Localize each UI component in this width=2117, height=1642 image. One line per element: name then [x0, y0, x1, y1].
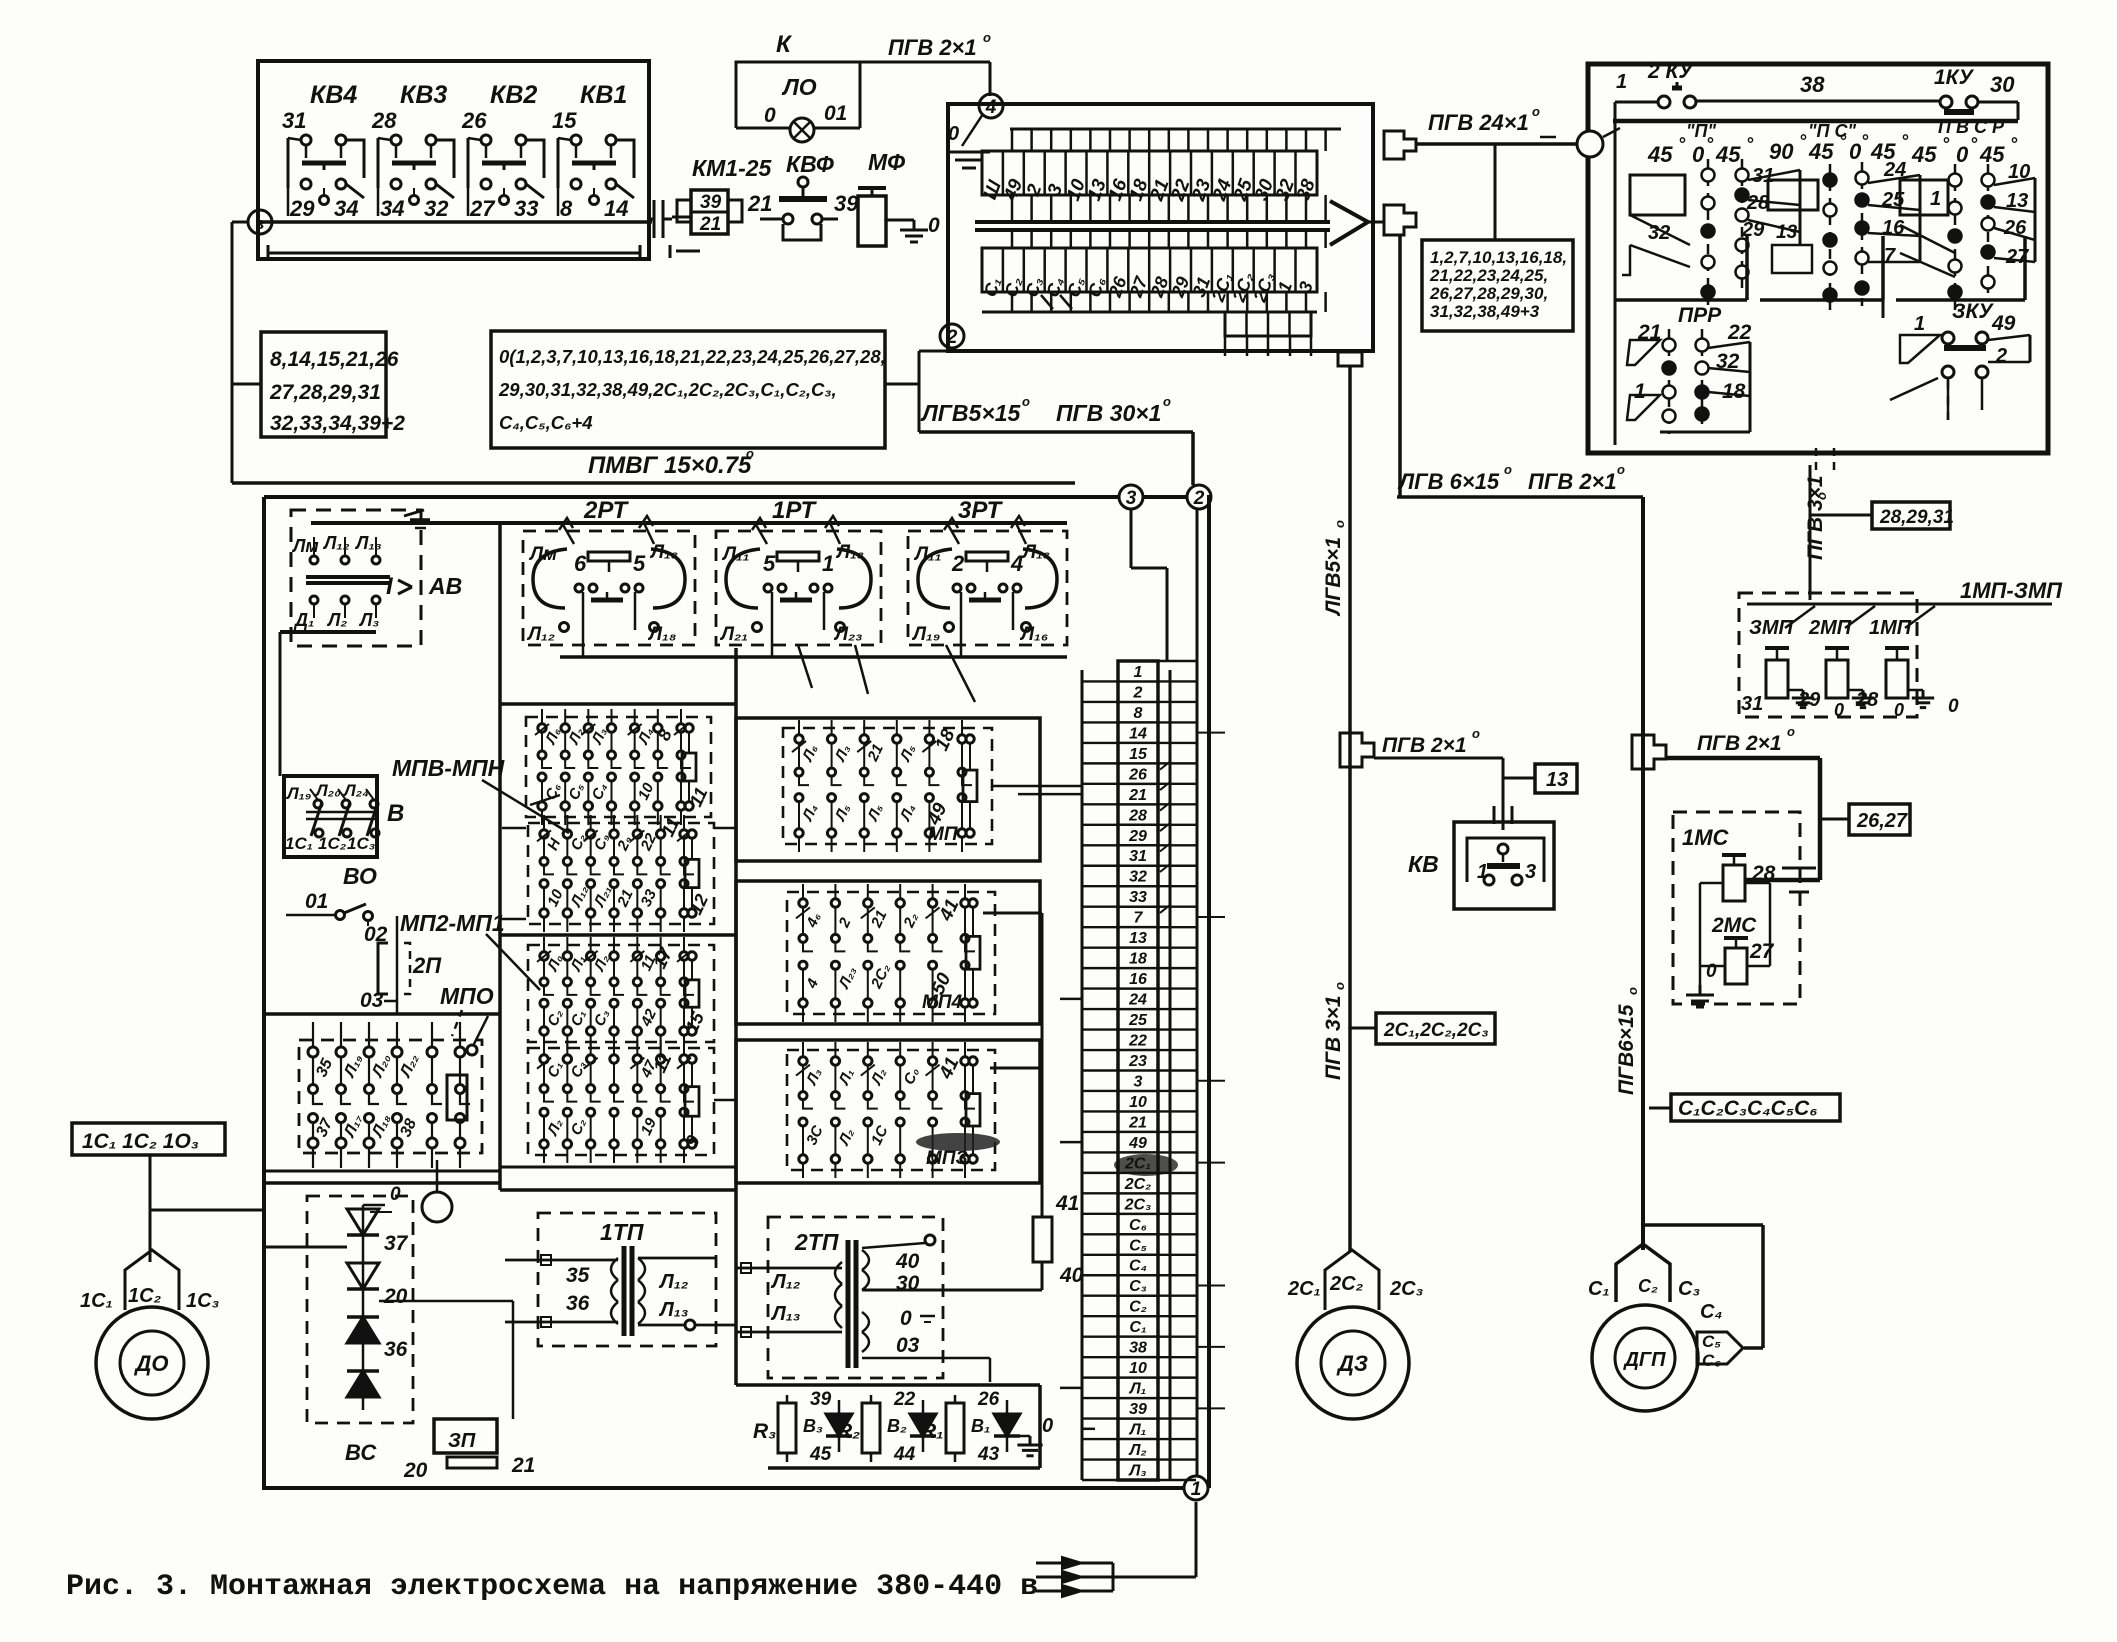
- ink smudge МП3: [916, 1133, 1000, 1151]
- svg-text:2РТ: 2РТ: [583, 497, 629, 524]
- svg-text:о: о: [983, 30, 991, 45]
- svg-text:18: 18: [1722, 380, 1746, 403]
- cable contents box 8,14...: [261, 332, 405, 437]
- wire МП4 41 to fuse: [983, 913, 1042, 1217]
- wire МП3 41 tap: [990, 1067, 1042, 1070]
- svg-text:26,27: 26,27: [1856, 810, 1908, 832]
- svg-text:МП4: МП4: [922, 992, 962, 1013]
- feeder cable to ДГП: [1397, 497, 1643, 1250]
- resistor 27 of 1МС: [1724, 938, 1775, 984]
- resistors ЗМП 2МП 1МП: [1741, 606, 1959, 720]
- svg-text:°: °: [1678, 134, 1686, 154]
- sector label ПС: [1808, 121, 1856, 141]
- svg-text:1: 1: [822, 551, 834, 576]
- terminal strip right comb: [1158, 661, 1196, 1480]
- svg-text:ПГВ 30×1: ПГВ 30×1: [1056, 400, 1161, 426]
- sector label ПВ СР: [1938, 117, 2005, 137]
- svg-text:0: 0: [1956, 142, 1969, 167]
- cable sleeve to ДЗ feeder: [1338, 352, 1362, 366]
- svg-text:10: 10: [1129, 1360, 1147, 1377]
- angles right: [1911, 134, 2018, 167]
- svg-text:о: о: [1504, 462, 1512, 477]
- terminal row lower numbers: [980, 248, 1317, 305]
- thermal relay 1РТ: [716, 497, 881, 657]
- svg-text:С₂: С₂: [1638, 1276, 1658, 1296]
- svg-text:В₂: В₂: [887, 1416, 907, 1436]
- svg-text:31,32,38,49+3: 31,32,38,49+3: [1430, 302, 1540, 321]
- resistor R1 diode В1: [921, 1389, 1020, 1465]
- resistor box 1МП-ЗМП dashed: [1739, 593, 1917, 717]
- wire from node to lower area: [232, 222, 248, 483]
- svg-text:МП2-МП1: МП2-МП1: [400, 910, 505, 936]
- svg-text:1МС: 1МС: [1682, 825, 1730, 850]
- ink smudge strip: [1114, 1154, 1178, 1176]
- svg-text:Л₂₃: Л₂₃: [833, 624, 863, 645]
- tee connector upper right: [1384, 131, 1416, 159]
- label К: [776, 31, 793, 58]
- svg-text:о: о: [1332, 982, 1347, 990]
- svg-text:13: 13: [1776, 222, 1798, 243]
- label ЛГВ 3х1: [1322, 982, 1347, 1080]
- svg-text:КВ4: КВ4: [310, 81, 357, 109]
- svg-text:МПЗ: МПЗ: [926, 1148, 968, 1169]
- contactor block КМ1-25: [677, 155, 773, 235]
- svg-text:21: 21: [747, 191, 772, 216]
- cam switch 1КУ: [1934, 66, 2018, 120]
- svg-text:АВ: АВ: [428, 573, 462, 599]
- svg-text:27: 27: [469, 196, 496, 221]
- svg-text:МП: МП: [928, 824, 958, 845]
- circuit breaker АВ dashed box: [291, 510, 421, 646]
- РТ output diagonals: [798, 645, 975, 702]
- svg-text:С₃: С₃: [1129, 1278, 1147, 1295]
- svg-text:21,22,23,24,25,: 21,22,23,24,25,: [1429, 266, 1548, 285]
- svg-text:28: 28: [1751, 862, 1776, 885]
- svg-text:ДГП: ДГП: [1622, 1349, 1666, 1371]
- diode stack ВС: [347, 1184, 409, 1410]
- label 39: [834, 191, 859, 216]
- svg-text:Л₁: Л₁: [1129, 1381, 1147, 1398]
- svg-text:КВ1: КВ1: [580, 81, 627, 109]
- svg-text:21: 21: [1128, 787, 1147, 804]
- terminal strip left stubs: [1018, 794, 1095, 1429]
- svg-text:4: 4: [985, 97, 997, 118]
- svg-text:3: 3: [1525, 861, 1536, 883]
- terminal comb bottom: [982, 292, 1326, 312]
- resistor R3 diode В3: [753, 1389, 852, 1465]
- label ПМВГ 15х0.75: [588, 446, 754, 479]
- svg-text:°: °: [1839, 131, 1847, 151]
- svg-text:ПГВ 2×1: ПГВ 2×1: [888, 35, 977, 60]
- svg-text:Л₁₃: Л₁₃: [658, 1299, 689, 1321]
- svg-text:Д₁: Д₁: [293, 610, 314, 630]
- wire to big list box: [386, 383, 491, 385]
- svg-text:15: 15: [1129, 746, 1148, 763]
- svg-text:Л₁: Л₁: [1129, 1422, 1147, 1439]
- svg-text:1РТ: 1РТ: [772, 497, 817, 524]
- svg-text:30: 30: [896, 1272, 920, 1295]
- long bottom cable line ПМВГ: [232, 481, 1075, 485]
- lamp ЛО with labels: [736, 74, 860, 142]
- svg-text:14: 14: [604, 196, 628, 221]
- thermal relay 2РТ: [523, 497, 695, 657]
- svg-text:2: 2: [1133, 684, 1143, 701]
- МП4 resistor labels: [922, 896, 963, 1013]
- РТ bottom rail: [560, 648, 1067, 657]
- svg-text:20: 20: [403, 1459, 428, 1482]
- cable contents box 1,2,7,...: [1422, 240, 1573, 331]
- svg-text:25: 25: [1128, 1012, 1148, 1029]
- svg-text:В: В: [387, 800, 404, 827]
- svg-text:0: 0: [948, 123, 959, 145]
- svg-text:МПВ-МПН: МПВ-МПН: [392, 755, 505, 781]
- wire bus under КВ switches: [260, 220, 648, 224]
- svg-text:28: 28: [371, 108, 397, 133]
- transformer 1ТП dashed box: [538, 1213, 716, 1346]
- svg-text:2: 2: [1995, 345, 2007, 367]
- terminal sub-block bottom right: [1225, 312, 1311, 356]
- svg-text:ПГВ 2×1: ПГВ 2×1: [1382, 734, 1467, 757]
- svg-text:1С₁: 1С₁: [80, 1290, 113, 1312]
- node 1 bottom: [1184, 1476, 1208, 1500]
- svg-text:29: 29: [1128, 828, 1147, 845]
- svg-text:R₃: R₃: [753, 1420, 776, 1443]
- box 1С1 1С2 1О3: [72, 1123, 225, 1155]
- cabinet partition ВС top: [264, 1171, 500, 1183]
- svg-text:90: 90: [1769, 139, 1794, 164]
- ground at node 4: [948, 114, 990, 168]
- svg-text:29: 29: [289, 196, 315, 221]
- block ЗП: [403, 1419, 535, 1482]
- svg-text:Л₁₈: Л₁₈: [647, 624, 677, 645]
- svg-text:28: 28: [1128, 807, 1147, 824]
- svg-text:13: 13: [1546, 769, 1568, 791]
- svg-text:ПГВ 2×1: ПГВ 2×1: [1697, 732, 1782, 755]
- svg-text:40: 40: [895, 1250, 920, 1273]
- svg-text:ЛГВ5×15: ЛГВ5×15: [920, 400, 1022, 426]
- disconnect switch ВО and resistor 2П: [286, 863, 442, 1013]
- cam switch 2КУ: [1615, 60, 1696, 128]
- svg-text:Л₂: Л₂: [1128, 1442, 1146, 1459]
- switch КВ3 contact 28: [371, 81, 454, 221]
- svg-text:24: 24: [1128, 992, 1147, 1009]
- svg-text:ЛО: ЛО: [781, 74, 817, 100]
- svg-text:45: 45: [1911, 142, 1937, 167]
- svg-text:°: °: [1706, 134, 1714, 154]
- svg-text:°: °: [2010, 134, 2018, 154]
- svg-text:39: 39: [1129, 1401, 1147, 1418]
- svg-text:34: 34: [334, 196, 358, 221]
- svg-text:ПГВ 2×1: ПГВ 2×1: [1528, 469, 1617, 494]
- middle column partitions: [500, 704, 736, 1190]
- svg-text:КВ3: КВ3: [400, 81, 447, 109]
- svg-text:1С₂: 1С₂: [318, 834, 347, 853]
- branch to КВ switch: [1374, 758, 1503, 802]
- top link 38: [1696, 72, 1940, 101]
- label МПВ-МПН: [392, 755, 569, 833]
- svg-text:2П: 2П: [412, 953, 442, 978]
- wire from node2 into cabinet: [1196, 509, 1199, 1476]
- svg-text:С₁С₂С₃С₄С₅С₆: С₁С₂С₃С₄С₅С₆: [1678, 1097, 1818, 1120]
- svg-text:2МС: 2МС: [1711, 914, 1757, 937]
- svg-text:Л₁₂: Л₁₂: [658, 1271, 689, 1293]
- svg-text:о: о: [1163, 394, 1171, 409]
- wire from box to ДО: [150, 1155, 264, 1262]
- svg-text:°: °: [1901, 131, 1909, 151]
- motor ДО terminals: [80, 1250, 220, 1312]
- svg-text:°: °: [1861, 131, 1869, 151]
- svg-text:03: 03: [896, 1334, 920, 1357]
- motor ДЗ terminals: [1287, 1250, 1424, 1310]
- label ПГВ 2х1: [888, 30, 991, 60]
- svg-text:°: °: [1746, 134, 1754, 154]
- svg-text:0(1,2,3,7,10,13,16,18,21,22,23: 0(1,2,3,7,10,13,16,18,21,22,23,24,25,26,…: [499, 346, 886, 367]
- svg-text:49: 49: [1991, 312, 2016, 335]
- contactor block МПО: [299, 1022, 482, 1168]
- wire node2 to cable run: [919, 350, 948, 353]
- label МП2-МП1: [400, 910, 540, 990]
- tee connector at collector arrow: [1368, 205, 1416, 235]
- relay coil МФ: [858, 149, 914, 246]
- main cabinet box: [264, 497, 1212, 1488]
- junction node with cable mark: [248, 210, 272, 234]
- label ПГВ 2х1 right: [1697, 724, 1795, 755]
- РТ top bus: [311, 521, 1067, 525]
- svg-text:ЛГВ5×1: ЛГВ5×1: [1322, 537, 1345, 617]
- svg-text:21: 21: [1128, 1114, 1147, 1131]
- resistor R2 diode В2: [837, 1389, 936, 1465]
- svg-text:39: 39: [834, 191, 859, 216]
- svg-text:С₄: С₄: [1129, 1258, 1147, 1275]
- svg-text:36: 36: [566, 1292, 590, 1315]
- ВС taps: [264, 1247, 513, 1419]
- tee on ДЗ feeder: [1340, 733, 1374, 767]
- controller internal bus: [1613, 119, 2018, 124]
- controller inner frame: [1614, 128, 1617, 445]
- МПО upper resistor labels: [649, 944, 708, 1035]
- label ПГВ6х15: [1615, 987, 1640, 1095]
- lamp box К: [736, 62, 860, 128]
- box 2С1 2С2 2С3: [1351, 1013, 1495, 1044]
- svg-text:45: 45: [1979, 142, 2005, 167]
- label МПО: [440, 983, 494, 1036]
- svg-text:В₃: В₃: [803, 1416, 823, 1436]
- svg-text:5: 5: [763, 551, 776, 576]
- svg-text:ВО: ВО: [343, 863, 377, 889]
- terminal strip left comb: [1082, 670, 1118, 1480]
- svg-text:1С₂: 1С₂: [128, 1285, 162, 1307]
- svg-text:ПГВ6×15: ПГВ6×15: [1615, 1004, 1638, 1095]
- wire box stub: [232, 383, 261, 386]
- svg-text:С₁: С₁: [1588, 1278, 1609, 1300]
- svg-text:37: 37: [384, 1232, 409, 1255]
- svg-text:В₁: В₁: [971, 1416, 990, 1436]
- svg-text:31: 31: [1741, 693, 1763, 715]
- branch to 1МС: [1666, 758, 1820, 880]
- svg-text:0: 0: [390, 1184, 401, 1205]
- svg-text:40: 40: [1059, 1264, 1084, 1287]
- svg-text:ДО: ДО: [134, 1351, 169, 1376]
- svg-text:С₅: С₅: [1702, 1332, 1721, 1351]
- svg-text:о: о: [1332, 520, 1347, 528]
- svg-text:6: 6: [574, 551, 587, 576]
- svg-text:0: 0: [1948, 696, 1959, 717]
- cable entry node: [1577, 128, 1620, 157]
- svg-text:Л₂₀: Л₂₀: [314, 781, 341, 800]
- svg-text:45: 45: [1647, 142, 1673, 167]
- svg-text:22: 22: [1128, 1033, 1147, 1050]
- svg-text:31: 31: [282, 108, 306, 133]
- wire rail to КМ1-25: [648, 217, 691, 222]
- svg-text:Л₃: Л₃: [358, 610, 379, 630]
- supply arrows: [1036, 1502, 1196, 1597]
- svg-text:ПГВ 24×1: ПГВ 24×1: [1428, 110, 1529, 135]
- МПО lower resistor labels: [649, 1050, 703, 1149]
- svg-text:32: 32: [424, 196, 449, 221]
- svg-text:МПО: МПО: [440, 983, 494, 1009]
- svg-text:Л₁₉: Л₁₉: [911, 624, 940, 645]
- svg-text:КМ1-25: КМ1-25: [692, 155, 773, 181]
- node 4: [979, 94, 1003, 118]
- switch КВ2 contact 26: [461, 81, 544, 221]
- svg-text:о: о: [1814, 492, 1829, 500]
- rectifier ВС dashed box: [307, 1196, 413, 1423]
- switch КВ4 contact 31: [282, 81, 364, 221]
- cable contents box 0(1,2,3...: [491, 331, 886, 448]
- svg-text:о: о: [1022, 394, 1030, 409]
- svg-text:32,33,34,39+2: 32,33,34,39+2: [270, 412, 405, 435]
- cabinet partition vertical right: [734, 648, 738, 1385]
- svg-text:14: 14: [1129, 725, 1147, 742]
- svg-text:Л₁₃: Л₁₃: [770, 1303, 801, 1325]
- svg-text:2С₁: 2С₁: [1287, 1278, 1321, 1300]
- label 21: [747, 191, 772, 216]
- svg-text:01: 01: [824, 102, 847, 125]
- R row ground: [1017, 1415, 1053, 1456]
- controller sector ПВ contacts: [1900, 161, 2035, 310]
- svg-text:0: 0: [1042, 1415, 1053, 1437]
- svg-text:ПГВ 3×1: ПГВ 3×1: [1804, 475, 1827, 560]
- fuse 41-40: [1033, 1192, 1084, 1290]
- transformer 2ТП dashed box: [768, 1217, 943, 1378]
- svg-text:1С₁ 1С₂ 1О₃: 1С₁ 1С₂ 1О₃: [82, 1130, 199, 1153]
- terminal comb middle lower: [1012, 230, 1326, 248]
- relay block ПРР: [1627, 304, 1752, 434]
- box 26,27: [1820, 804, 1910, 835]
- cable ЛГВ5х15 run: [919, 351, 1193, 485]
- svg-text:°: °: [1970, 134, 1978, 154]
- МП1 resistor labels: [923, 726, 960, 845]
- svg-text:38: 38: [1800, 72, 1825, 97]
- label ВС: [345, 1440, 377, 1465]
- svg-text:28: 28: [1855, 689, 1879, 711]
- svg-text:1С₁: 1С₁: [285, 834, 313, 853]
- svg-text:2 КУ: 2 КУ: [1647, 60, 1694, 83]
- svg-text:13: 13: [1129, 930, 1147, 947]
- series capacitor mark at КВ output: [648, 200, 672, 238]
- svg-text:2С₁: 2С₁: [1124, 1155, 1151, 1172]
- svg-text:ЗП: ЗП: [448, 1430, 476, 1452]
- svg-text:38: 38: [1129, 1340, 1147, 1357]
- svg-text:КВ2: КВ2: [490, 81, 537, 109]
- svg-text:0: 0: [1706, 961, 1717, 982]
- 1МС internal wires: [1700, 883, 1770, 982]
- svg-text:ДЗ: ДЗ: [1336, 1351, 1368, 1376]
- label ПГВ 2х1 left: [1382, 726, 1480, 757]
- svg-text:22: 22: [893, 1389, 916, 1410]
- svg-text:ЗКУ: ЗКУ: [1952, 300, 1994, 323]
- svg-text:32: 32: [1129, 869, 1147, 886]
- svg-text:С₄,С₅,С₆+4: С₄,С₅,С₆+4: [499, 412, 593, 433]
- svg-text:31: 31: [1129, 848, 1147, 865]
- drop to contents box: [1494, 144, 1497, 240]
- svg-text:Л₃: Л₃: [1128, 1462, 1146, 1479]
- svg-text:о: о: [1617, 462, 1625, 477]
- svg-text:23: 23: [1128, 1053, 1147, 1070]
- АВ top tick: [404, 510, 430, 528]
- node 2 top: [1187, 485, 1211, 509]
- svg-text:Л₁₆: Л₁₆: [1019, 624, 1048, 645]
- svg-text:5: 5: [633, 551, 646, 576]
- angles middle: [1769, 131, 1909, 164]
- svg-text:о: о: [1625, 987, 1640, 995]
- svg-text:1ТП: 1ТП: [600, 1219, 644, 1245]
- svg-text:0: 0: [1894, 700, 1904, 720]
- svg-text:Л₂₁: Л₂₁: [719, 624, 748, 645]
- wire К box to node 4: [860, 62, 990, 96]
- svg-text:С₅: С₅: [1129, 1237, 1147, 1254]
- relay contacts МП3: [787, 1042, 995, 1178]
- svg-text:Л₁₁: Л₁₁: [721, 544, 749, 565]
- svg-text:21: 21: [699, 214, 721, 235]
- svg-text:01: 01: [305, 890, 328, 913]
- cam switch ЗКУ: [1883, 300, 2048, 420]
- svg-text:26: 26: [977, 1389, 1000, 1410]
- svg-text:27,28,29,31: 27,28,29,31: [269, 381, 381, 404]
- svg-text:26,27,28,29,30,: 26,27,28,29,30,: [1429, 284, 1548, 303]
- svg-text:Л₂₄: Л₂₄: [342, 781, 369, 800]
- svg-text:Л₁₂: Л₁₂: [526, 624, 555, 645]
- terminal strip right stubs: [1196, 733, 1225, 1409]
- relay contacts МПО upper: [528, 937, 714, 1050]
- svg-text:1С₃: 1С₃: [347, 834, 375, 853]
- ground 1МС: [1686, 966, 1714, 1007]
- motor ДЗ: [1297, 1307, 1409, 1419]
- svg-text:3: 3: [1126, 488, 1137, 509]
- svg-text:2С₃: 2С₃: [1389, 1278, 1424, 1300]
- terminal strip numbers: [1118, 661, 1158, 1480]
- svg-text:41: 41: [1055, 1192, 1079, 1215]
- cabinet partition МПО top: [264, 1012, 500, 1016]
- svg-text:°: °: [1799, 131, 1807, 151]
- svg-text:МФ: МФ: [868, 149, 905, 175]
- svg-text:45: 45: [809, 1444, 832, 1465]
- terminal strip diagonal marks: [1160, 762, 1170, 913]
- svg-text:33: 33: [514, 196, 538, 221]
- resistor box 1МС dashed: [1673, 812, 1800, 1004]
- МПВ resistor labels: [653, 726, 711, 810]
- thermal relay 3РТ: [908, 497, 1067, 657]
- svg-text:1: 1: [1191, 1479, 1202, 1500]
- motor ДГП: [1592, 1305, 1698, 1411]
- box 13: [1503, 764, 1577, 793]
- svg-text:Лм: Лм: [528, 544, 557, 565]
- terminal row upper numbers: [980, 151, 1320, 205]
- svg-text:8,14,15,21,26: 8,14,15,21,26: [270, 348, 399, 371]
- svg-text:2С₂: 2С₂: [1124, 1176, 1152, 1193]
- svg-text:3: 3: [1134, 1073, 1143, 1090]
- svg-text:1: 1: [1634, 380, 1646, 403]
